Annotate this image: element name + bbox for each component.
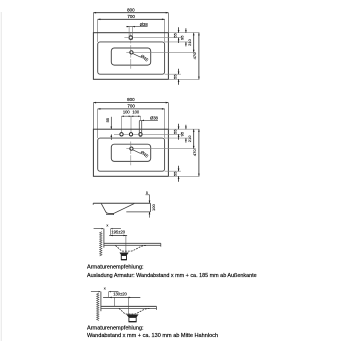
D1 dim 470 right <box>198 33 200 80</box>
svg-text:55: 55 <box>172 32 177 37</box>
D2 drain dia45 leader <box>133 150 141 154</box>
WV1 trap cup <box>121 256 126 260</box>
WV2 wall hatch <box>97 293 99 320</box>
D2 slot around right hole <box>139 120 141 136</box>
D2 drain crosshair <box>126 148 129 150</box>
WV2 left drop <box>113 297 115 306</box>
svg-text:700: 700 <box>127 104 135 109</box>
svg-text:x: x <box>106 223 108 228</box>
svg-text:Wandabstand x mm + ca. 130 mm: Wandabstand x mm + ca. 130 mm ab Mitte H… <box>87 333 218 339</box>
D2 vertical centerline <box>130 142 132 166</box>
svg-text:470: 470 <box>192 149 197 156</box>
svg-text:Ø38: Ø38 <box>140 22 149 27</box>
D1 dim 55 top right <box>178 27 180 32</box>
D2 dim 55 bottom right <box>178 166 180 171</box>
D1 right ext lines <box>168 32 199 34</box>
WV2 dim 130 line <box>103 296 140 298</box>
SV front edge tick <box>92 203 94 205</box>
D2 dim 100/100 <box>122 115 141 117</box>
D2 rim rounded rect <box>98 138 165 171</box>
WV2 slab bottom line <box>101 307 157 309</box>
SV small hook dim 5 <box>146 194 150 196</box>
WV2 wall face <box>100 292 102 312</box>
svg-text:95: 95 <box>180 131 185 136</box>
D2 dim 95 right <box>185 125 187 130</box>
WV1 wall face <box>103 229 105 248</box>
D2 tap hole middle <box>129 133 132 136</box>
WV2 trap cup <box>129 317 136 321</box>
D1 dia38 dim line <box>126 26 147 28</box>
WV1 right edge tick <box>160 243 162 246</box>
svg-text:55: 55 <box>172 171 177 176</box>
D2 hole drop lines <box>121 116 123 132</box>
D2 dim 210 right <box>193 129 195 148</box>
D1 drain center ext line <box>133 51 195 53</box>
D1 vertical centerline <box>130 45 132 69</box>
D2 dim 470 right <box>198 129 200 176</box>
WV2 drain axis drop <box>127 297 129 315</box>
D2 outer body rect <box>93 129 168 176</box>
D2 ext lines 700 <box>97 109 99 138</box>
D1 dia38 witness lines <box>128 27 130 40</box>
svg-text:100: 100 <box>123 110 131 115</box>
D1 tap hole centerline dashes <box>124 37 128 39</box>
D1 dim 55 bottom right <box>178 69 180 74</box>
D2 dim 55 top right <box>178 124 180 129</box>
D2 dim 800 <box>93 102 168 104</box>
WV2 bowl underside <box>119 308 150 314</box>
D2 ext lines 800 <box>92 103 94 130</box>
D2 drain center ext line <box>133 148 195 150</box>
svg-text:5: 5 <box>146 191 148 195</box>
svg-text:x: x <box>104 286 106 291</box>
svg-text:55: 55 <box>172 129 177 134</box>
svg-text:Armaturenempfehlung:: Armaturenempfehlung: <box>87 325 144 331</box>
D2 dim 55 left <box>110 117 112 129</box>
svg-text:100: 100 <box>151 203 156 210</box>
svg-text:800: 800 <box>127 7 135 12</box>
SV top surface line <box>93 202 150 204</box>
WV2 slab top line <box>101 305 157 307</box>
svg-text:Armaturenempfehlung:: Armaturenempfehlung: <box>87 265 144 271</box>
svg-text:55: 55 <box>172 74 177 79</box>
SV bowl profile <box>101 203 134 213</box>
WV1 dim 195 line <box>109 234 127 236</box>
D2 dia38 leader <box>142 119 158 121</box>
WV1 wall hatch <box>100 232 102 256</box>
D1 basin rounded rect <box>111 48 150 65</box>
SV right edge <box>149 203 151 212</box>
D1 rim rounded rect <box>98 42 165 74</box>
D1 dim 700 <box>98 18 165 20</box>
WV1 slab bottom line <box>104 244 161 246</box>
svg-text:95: 95 <box>180 35 185 40</box>
D1 ext lines 800 <box>92 13 94 33</box>
WV1 slab top line <box>104 242 161 244</box>
D2 hole row dashes <box>114 133 119 135</box>
svg-text:210: 210 <box>187 38 192 45</box>
SV drain boss <box>107 214 114 215</box>
svg-text:210: 210 <box>187 135 192 142</box>
faint page edge line <box>0 12 2 341</box>
WV1 bowl underside <box>115 245 146 251</box>
svg-text:Ø38: Ø38 <box>150 116 159 121</box>
svg-text:130±20: 130±20 <box>113 292 127 297</box>
D1 drain hole <box>130 51 133 54</box>
SV dim 100 <box>149 195 151 203</box>
svg-text:470: 470 <box>192 52 197 59</box>
D2 basin rounded rect <box>111 144 150 161</box>
WV1 drain drop line <box>125 235 127 252</box>
svg-text:55: 55 <box>105 117 110 122</box>
svg-text:800: 800 <box>127 97 135 102</box>
svg-text:700: 700 <box>127 14 135 19</box>
D2 drain hole <box>130 147 133 150</box>
SV rear bottom line <box>126 211 150 213</box>
D2 dim 700 <box>98 108 165 110</box>
WV2 trap flange <box>127 315 139 318</box>
svg-text:195±20: 195±20 <box>111 229 125 234</box>
D1 outer body rect <box>93 33 168 80</box>
svg-text:100: 100 <box>132 110 140 115</box>
WV2 right edge tick <box>156 306 158 310</box>
D1 dim 800 <box>93 12 168 14</box>
D1 tap hole <box>129 36 133 40</box>
D1 drain crosshair <box>126 51 129 53</box>
D1 ext lines 700 <box>97 19 99 42</box>
svg-text:Ausladung Armatur: Wandabstand: Ausladung Armatur: Wandabstand x mm + ca… <box>87 273 257 279</box>
D1 dim 210 right <box>193 33 195 53</box>
D1 dim 95 right <box>185 28 187 33</box>
D2 tap hole left <box>120 133 123 136</box>
WV1 trap flange <box>120 253 129 256</box>
D1 drain dia45 leader <box>133 54 141 58</box>
D2 right ext lines <box>168 128 199 130</box>
D2 tap hole right <box>139 133 142 136</box>
